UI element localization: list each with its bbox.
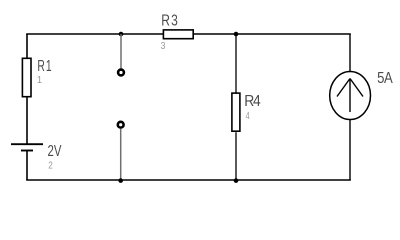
svg-text:3: 3 bbox=[161, 40, 166, 52]
resistor R4 bbox=[232, 93, 261, 131]
terminal lower open circle bbox=[118, 122, 124, 128]
wire R4 branch lower bbox=[235, 132, 237, 180]
node junction bottom-left bbox=[118, 178, 123, 183]
current source 5A bbox=[330, 70, 393, 120]
svg-text:2V: 2V bbox=[47, 142, 62, 159]
wire top horizontal bbox=[26, 33, 351, 35]
wire left vertical lower (battery to bottom wire) bbox=[26, 151, 28, 181]
wire left vertical middle (R1 to battery) bbox=[26, 97, 28, 144]
svg-text:R1: R1 bbox=[37, 57, 52, 75]
svg-text:R3: R3 bbox=[161, 11, 179, 29]
wire gray lower terminal stem bbox=[120, 129, 122, 180]
svg-text:R4: R4 bbox=[244, 93, 260, 110]
wire bottom horizontal bbox=[26, 179, 351, 181]
wire right vertical upper bbox=[349, 34, 351, 71]
wire right vertical lower bbox=[349, 120, 351, 180]
svg-text:1: 1 bbox=[37, 75, 43, 87]
svg-text:4: 4 bbox=[246, 110, 250, 122]
wire left vertical upper (top wire to R1) bbox=[26, 34, 28, 58]
resistor R1 bbox=[22, 57, 52, 97]
wire gray upper terminal stem bbox=[120, 34, 122, 69]
svg-text:2: 2 bbox=[48, 158, 53, 170]
wire R4 branch upper bbox=[235, 34, 237, 93]
resistor R3 bbox=[161, 11, 194, 52]
node junction top-middle bbox=[234, 32, 239, 37]
battery 2V bbox=[11, 142, 62, 170]
terminal upper open circle bbox=[118, 70, 124, 76]
node junction top-left bbox=[119, 32, 124, 37]
svg-text:5A: 5A bbox=[377, 70, 393, 87]
node junction bottom-middle bbox=[234, 178, 239, 183]
